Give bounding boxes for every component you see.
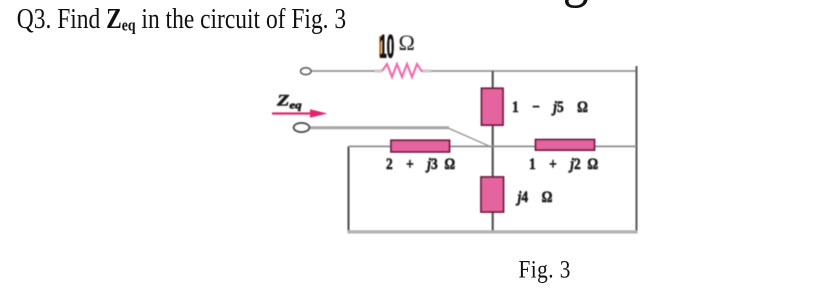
svg-text:j4 Ω: j4 Ω [516, 189, 553, 206]
svg-text:g: g [563, 0, 589, 9]
svg-text:Q3. Find Zeq in the circuit of: Q3. Find Zeq in the circuit of Fig. 3 [17, 2, 346, 35]
svg-text:10: 10 [379, 30, 394, 65]
svg-text:1 + j2 Ω: 1 + j2 Ω [529, 156, 598, 173]
svg-text:Ω: Ω [399, 30, 415, 55]
svg-text:2 + j3 Ω: 2 + j3 Ω [386, 156, 455, 173]
svg-text:1 − j5 Ω: 1 − j5 Ω [512, 99, 588, 116]
svg-text:Zeq: Zeq [276, 91, 302, 111]
svg-text:Fig. 3: Fig. 3 [519, 256, 571, 284]
